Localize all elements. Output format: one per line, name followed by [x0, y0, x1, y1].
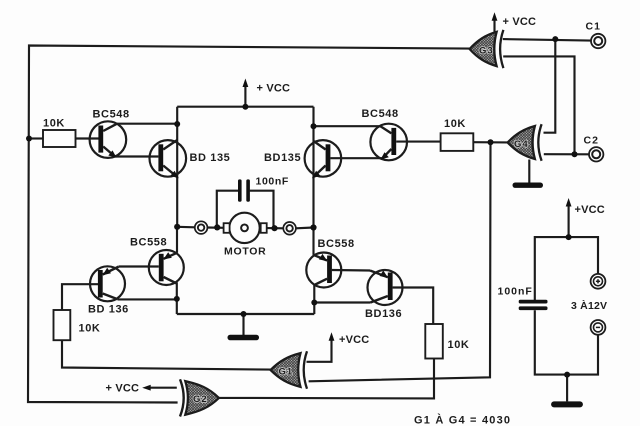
svg-text:G1: G1	[279, 367, 294, 378]
svg-text:G1 À G4 = 4030: G1 À G4 = 4030	[414, 414, 511, 426]
svg-text:10K: 10K	[79, 323, 101, 335]
svg-text:+ VCC: + VCC	[106, 383, 140, 395]
svg-text:BC558: BC558	[318, 238, 355, 250]
svg-text:10K: 10K	[43, 118, 65, 130]
svg-text:+ VCC: + VCC	[257, 83, 291, 95]
svg-text:G3: G3	[479, 46, 494, 57]
svg-text:10K: 10K	[448, 339, 470, 351]
svg-text:G2: G2	[193, 394, 208, 405]
svg-text:100nF: 100nF	[498, 286, 533, 298]
svg-text:+ VCC: + VCC	[503, 16, 537, 28]
svg-text:+VCC: +VCC	[575, 204, 605, 216]
svg-text:BD 136: BD 136	[88, 304, 129, 316]
svg-text:10K: 10K	[444, 118, 466, 130]
svg-text:BC548: BC548	[93, 109, 130, 121]
svg-text:3 À12V: 3 À12V	[571, 299, 607, 312]
svg-text:100nF: 100nF	[256, 176, 289, 188]
svg-text:BD135: BD135	[264, 152, 301, 164]
svg-text:C2: C2	[584, 135, 599, 147]
svg-text:MOTOR: MOTOR	[224, 245, 266, 257]
svg-text:BC548: BC548	[362, 108, 399, 120]
svg-text:BD136: BD136	[365, 308, 402, 320]
svg-text:BD 135: BD 135	[190, 152, 231, 164]
svg-text:+VCC: +VCC	[339, 334, 369, 346]
svg-text:C1: C1	[586, 21, 601, 33]
svg-text:G4: G4	[514, 139, 529, 150]
svg-text:BC558: BC558	[130, 237, 167, 249]
